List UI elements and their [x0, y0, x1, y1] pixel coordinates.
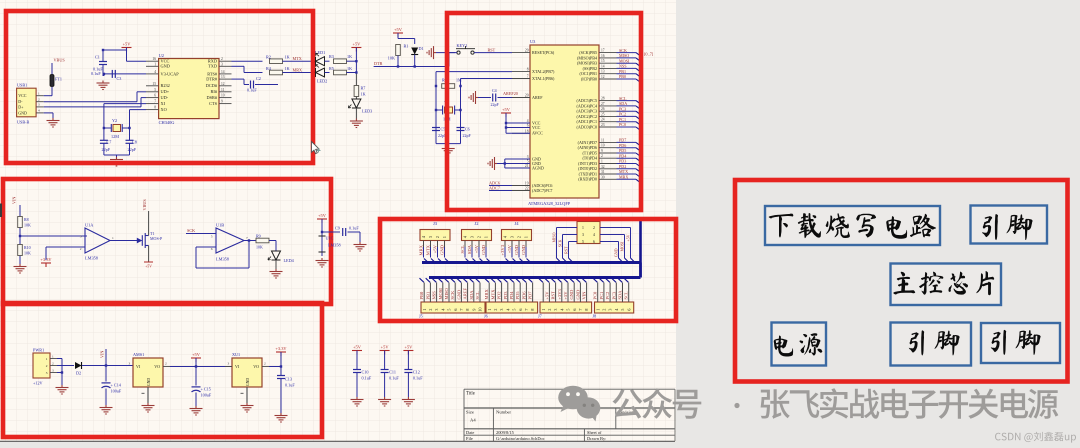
svg-text:20: 20: [525, 94, 529, 98]
mouse cursor: [312, 142, 320, 154]
svg-text:2: 2: [602, 308, 607, 310]
svg-text:3: 3: [228, 361, 230, 365]
svg-text:D1: D1: [419, 46, 424, 51]
svg-text:3: 3: [129, 361, 131, 365]
ground under USB1: [44, 112, 53, 114]
ground pin XU1: [246, 387, 248, 403]
svg-text:+5V: +5V: [626, 234, 631, 241]
svg-text:MTX: MTX: [490, 289, 495, 300]
svg-text:RESET(PC6): RESET(PC6): [532, 50, 555, 55]
svg-text:31: 31: [601, 170, 605, 174]
LED LED4: [268, 251, 281, 260]
svg-text:(TXD)PD1: (TXD)PD1: [579, 171, 597, 176]
svg-text:Size: Size: [466, 410, 474, 415]
svg-text:XO: XO: [161, 107, 167, 112]
bus lower: [429, 276, 641, 279]
wire J3 pin 2: [437, 241, 439, 248]
svg-text:4: 4: [154, 70, 156, 74]
svg-text:VIN: VIN: [12, 197, 17, 204]
svg-text:12: 12: [221, 82, 225, 86]
LED LED2: [316, 65, 325, 78]
svg-text:6: 6: [593, 240, 595, 244]
svg-text:1: 1: [422, 308, 427, 310]
svg-text:3: 3: [221, 62, 223, 66]
wire J5 pin 6: [451, 278, 455, 282]
svg-text:GND: GND: [456, 289, 461, 299]
svg-text:GND: GND: [521, 244, 526, 255]
svg-text:C5: C5: [441, 126, 446, 131]
svg-text:(MISO)PB4: (MISO)PB4: [577, 55, 597, 60]
svg-text:R10: R10: [24, 245, 31, 250]
ground GND pins: [505, 158, 530, 160]
svg-text:19: 19: [525, 182, 529, 186]
ground under U1C: [316, 258, 329, 267]
svg-text:10K: 10K: [24, 223, 31, 228]
pin 32 net PD2: [599, 168, 617, 170]
wire ISP +5V: [600, 227, 631, 229]
svg-text:MRX: MRX: [484, 288, 489, 299]
svg-text:(ADC5)PC5: (ADC5)PC5: [577, 98, 597, 103]
svg-text:100uF: 100uF: [111, 389, 122, 394]
svg-text:Title: Title: [466, 392, 475, 397]
svg-text:+5V: +5V: [192, 352, 201, 357]
svg-text:+ C14: + C14: [111, 383, 122, 388]
wire U1B out to R9: [244, 240, 256, 242]
svg-text:10: 10: [221, 94, 225, 98]
header J4: [502, 230, 532, 241]
svg-text:(AIN1)PD7: (AIN1)PD7: [578, 140, 597, 145]
svg-text:MRX: MRX: [419, 244, 424, 255]
svg-text:1: 1: [154, 62, 156, 66]
svg-text:GND: GND: [514, 244, 519, 255]
legend box: power: [772, 323, 827, 366]
wire J6 pin 1: [485, 278, 489, 282]
svg-text:5: 5: [211, 234, 213, 238]
svg-text:U1A: U1A: [85, 222, 94, 227]
svg-text:24: 24: [601, 118, 605, 122]
svg-text:J8: J8: [593, 314, 597, 319]
svg-text:(ADC7)PC7: (ADC7)PC7: [532, 188, 552, 193]
svg-text:(OC1)PB1: (OC1)PB1: [579, 71, 597, 76]
svg-text:GND: GND: [614, 248, 619, 257]
svg-text:U1C: U1C: [326, 236, 334, 241]
svg-text:AREF20: AREF20: [503, 91, 518, 96]
pin 1 net PD3: [599, 163, 617, 165]
svg-text:VBUS: VBUS: [142, 199, 147, 211]
svg-text:PB0: PB0: [419, 291, 424, 300]
net label VBUS (T1 drain): [148, 211, 150, 236]
svg-text:MOSI: MOSI: [620, 241, 625, 252]
svg-text:RST: RST: [488, 48, 496, 53]
wire D- to UD+: [44, 101, 137, 103]
pin 15 net MOSI: [599, 62, 617, 64]
svg-text:(ADC2)PC2: (ADC2)PC2: [577, 114, 597, 119]
ground at C9: [354, 242, 367, 251]
svg-text:+5V: +5V: [353, 345, 362, 350]
svg-text:LM358: LM358: [216, 257, 229, 262]
wire ISP MISO: [557, 227, 578, 229]
svg-text:1: 1: [38, 92, 40, 96]
svg-text:PB1: PB1: [619, 69, 626, 74]
svg-text:15: 15: [152, 82, 156, 86]
wire J8 pin 4: [612, 278, 616, 282]
svg-text:16: 16: [152, 57, 156, 61]
svg-text:LED3: LED3: [362, 109, 372, 114]
IC U2 CH340G: [159, 59, 219, 119]
power +5V (U1C): [317, 219, 327, 223]
svg-text:13: 13: [601, 70, 605, 74]
wire J7 pin 6: [570, 278, 574, 282]
resistor R6 1M: [442, 84, 455, 89]
svg-text:8: 8: [154, 106, 156, 110]
legend box: pins (bottom middle): [891, 323, 972, 366]
svg-text:AGND: AGND: [532, 165, 544, 170]
svg-text:LED2: LED2: [317, 78, 327, 83]
power +5V under T1: [148, 246, 150, 263]
wire ISP MOSI: [600, 234, 625, 236]
header J3: [420, 230, 450, 241]
svg-text:PC3: PC3: [611, 291, 616, 300]
svg-text:30: 30: [601, 175, 605, 179]
wire J7 pin 4: [557, 278, 561, 282]
wire J5 pin 5: [444, 278, 448, 282]
power +3.3V out: [276, 352, 286, 356]
svg-text:+5V: +5V: [563, 291, 568, 300]
highlight box 3 (power monitor): [3, 179, 331, 304]
wire J6 pin 2: [491, 278, 495, 282]
svg-text:VI: VI: [235, 364, 240, 369]
svg-text:100uF: 100uF: [201, 393, 212, 398]
svg-text:1: 1: [442, 236, 447, 238]
svg-text:G:\arduino\arduino.SchDoc: G:\arduino\arduino.SchDoc: [496, 436, 545, 441]
pin 23 net PC0: [599, 126, 617, 128]
legend box: main chip: [891, 264, 1002, 306]
svg-text:2: 2: [221, 57, 223, 61]
svg-text:1K: 1K: [361, 92, 366, 97]
wire J5 pin 1: [420, 278, 424, 282]
svg-text:CH340G: CH340G: [159, 120, 176, 125]
svg-text:3: 3: [80, 234, 82, 238]
pin 9 net PD5: [599, 152, 617, 154]
pin 30 net MRX: [599, 178, 617, 180]
svg-text:6: 6: [527, 124, 529, 128]
svg-text:23: 23: [601, 123, 605, 127]
svg-text:(ADC4)PC4: (ADC4)PC4: [577, 103, 597, 108]
svg-text:RI#: RI#: [211, 89, 218, 94]
pin 14 net NSS: [599, 67, 617, 69]
wire J6 pin 4: [503, 278, 507, 282]
bus corner: [639, 263, 642, 278]
ground under LED4: [270, 269, 283, 278]
wire J5 pin 7: [457, 278, 461, 282]
vertical bus from U3 to headers: [639, 219, 642, 278]
svg-text:T1: T1: [150, 231, 154, 236]
pin 26 net PC3: [599, 110, 617, 112]
wire ISP GND: [600, 241, 619, 243]
wire D+ to UD-: [44, 106, 141, 108]
svg-text:22pF: 22pF: [128, 147, 137, 152]
highlight box 2 (main chip): [447, 13, 641, 210]
wire J3 pin 4: [423, 241, 425, 248]
svg-text:C1: C1: [95, 55, 100, 60]
resistor R3: [334, 59, 347, 64]
svg-text:USB1: USB1: [17, 83, 27, 88]
wire J5 pin 10: [475, 278, 479, 282]
svg-text:DTR: DTR: [374, 61, 383, 66]
svg-text:1: 1: [595, 308, 600, 310]
svg-text:+5V: +5V: [404, 345, 413, 350]
svg-text:U1B: U1B: [216, 222, 224, 227]
ground under C12: [402, 397, 415, 406]
ground pin AMS1: [147, 387, 149, 403]
capacitor C11: [380, 351, 390, 355]
svg-text:J5: J5: [419, 314, 423, 319]
highlight box 5 (pin headers): [380, 219, 676, 321]
crystal Y2 circuit: [104, 103, 146, 105]
svg-text:C8: C8: [132, 140, 137, 145]
svg-text:1K: 1K: [285, 66, 290, 71]
legend box: pins (top): [971, 206, 1048, 244]
svg-text:+5V: +5V: [145, 265, 152, 269]
regulator XU1: [232, 358, 262, 387]
wire J7 pin 8: [582, 278, 586, 282]
svg-text:SCK: SCK: [619, 48, 627, 53]
svg-text:7: 7: [527, 75, 529, 79]
svg-text:11: 11: [221, 88, 225, 92]
svg-text:VI: VI: [136, 364, 141, 369]
svg-text:2: 2: [493, 308, 498, 310]
svg-text:5: 5: [582, 240, 584, 244]
svg-text:PD5: PD5: [515, 291, 520, 300]
svg-text:(T0)PD4: (T0)PD4: [582, 156, 597, 161]
LED LED3: [348, 99, 361, 108]
ground under C13: [275, 413, 288, 422]
svg-text:PD3: PD3: [503, 291, 508, 300]
svg-text:DTR#: DTR#: [206, 77, 218, 82]
capacitor C6: [457, 127, 465, 129]
svg-text:9: 9: [221, 100, 223, 104]
svg-text:22pF: 22pF: [102, 147, 111, 152]
svg-text:26: 26: [601, 107, 605, 111]
wire RXD-MTX: [232, 60, 263, 62]
svg-text:VBUS: VBUS: [54, 58, 66, 63]
svg-text:3: 3: [527, 155, 529, 159]
pin 11 net PD7: [599, 141, 617, 143]
ground at KEY1: [436, 52, 457, 54]
svg-text:(ADC1)PC1: (ADC1)PC1: [577, 119, 597, 124]
svg-text:22: 22: [525, 187, 529, 191]
ground under C1: [97, 81, 110, 90]
wire U1A out to T1: [110, 240, 133, 242]
svg-text:VIN: VIN: [100, 351, 105, 358]
svg-text:SDA: SDA: [469, 290, 474, 300]
svg-text:C13: C13: [285, 376, 292, 381]
svg-text:MTX: MTX: [426, 244, 431, 255]
svg-text:12: 12: [601, 75, 605, 79]
svg-text:UD-: UD-: [161, 95, 169, 100]
svg-text:(ADC0)PC0: (ADC0)PC0: [577, 124, 597, 129]
svg-text:AREF: AREF: [463, 288, 468, 300]
svg-text:13: 13: [221, 75, 225, 79]
svg-text:(ICP)PB0: (ICP)PB0: [581, 76, 597, 81]
svg-text:J2: J2: [474, 221, 479, 226]
wire J2 pin 3: [471, 241, 473, 248]
pin 25 net PC2: [599, 115, 617, 117]
svg-text:12M: 12M: [111, 134, 119, 139]
svg-text:10: 10: [601, 144, 605, 148]
wire J2 pin 4: [464, 241, 466, 248]
svg-text:2: 2: [517, 236, 522, 238]
svg-text:R5: R5: [329, 66, 334, 71]
wire J5 pin 8: [463, 278, 467, 282]
svg-text:27: 27: [601, 102, 605, 106]
svg-text:D+: D+: [18, 104, 24, 109]
wire AMS1 out: [170, 366, 232, 368]
svg-text:D2: D2: [76, 371, 81, 376]
svg-text:11: 11: [601, 138, 605, 142]
svg-text:25: 25: [601, 112, 605, 116]
header J7: [540, 302, 592, 313]
svg-text:PD4: PD4: [619, 153, 626, 158]
wire J8 pin 1: [593, 278, 597, 282]
svg-text:SCK: SCK: [558, 239, 563, 247]
header J2: [462, 230, 492, 241]
capacitor C8: [129, 128, 131, 140]
ISP header J1 2x3: [577, 222, 600, 244]
svg-text:17: 17: [601, 49, 605, 53]
USB connector USB1: [17, 88, 36, 117]
power +5V (reset pullup): [393, 33, 403, 37]
svg-text:PD6: PD6: [619, 143, 626, 148]
capacitor C13: [280, 367, 282, 376]
svg-text:VIN: VIN: [582, 291, 587, 300]
wire J2 pin 2: [478, 241, 480, 248]
capacitor C2 (DTR): [232, 78, 245, 80]
svg-text:RST: RST: [564, 246, 569, 254]
svg-text:MISO: MISO: [444, 287, 449, 299]
svg-text:SCK: SCK: [187, 228, 195, 233]
svg-text:SCK: SCK: [450, 290, 455, 300]
diode D1: [411, 48, 418, 55]
pin 13 net PB1: [599, 73, 617, 75]
svg-text:C7: C7: [107, 140, 112, 145]
title block: [464, 388, 675, 390]
svg-text:MOS-P: MOS-P: [150, 236, 163, 241]
svg-text:ATMEGA328_32LQFP: ATMEGA328_32LQFP: [528, 201, 571, 206]
svg-text:PC0: PC0: [619, 122, 626, 127]
svg-text:SCL: SCL: [624, 291, 629, 300]
wire RST to pin29: [474, 52, 512, 54]
capacitor C9: [322, 231, 340, 233]
feedback wire U1B: [196, 246, 216, 248]
svg-text:PD4: PD4: [509, 291, 514, 300]
ground under C15: [190, 406, 203, 415]
svg-text:VCC: VCC: [18, 93, 27, 98]
svg-text:SCL: SCL: [619, 96, 627, 101]
capacitor C10: [352, 351, 362, 355]
crystal Y1: [445, 107, 453, 113]
svg-text:2: 2: [52, 361, 54, 365]
pin 12 net PB0: [599, 78, 617, 80]
svg-text:0.1uF: 0.1uF: [285, 382, 295, 387]
svg-text:XI: XI: [161, 101, 166, 106]
wire J3 pin 3: [430, 241, 432, 248]
svg-text:PWR1: PWR1: [33, 347, 44, 352]
svg-text:VCC: VCC: [532, 125, 541, 130]
svg-text:MISO: MISO: [552, 232, 557, 242]
IC U3 ATMEGA328: [530, 45, 599, 198]
highlight box 1 (download circuit): [6, 11, 313, 163]
ground under divider: [14, 264, 27, 273]
resistor R5: [334, 70, 347, 75]
svg-text:MISO: MISO: [619, 53, 629, 58]
svg-text:PB1: PB1: [425, 292, 430, 300]
svg-text:0.1uF: 0.1uF: [349, 226, 359, 231]
svg-text:PD6: PD6: [521, 291, 526, 300]
wire J6 pin 7: [522, 278, 526, 282]
transistor T1 MOS-P: [137, 238, 142, 242]
svg-text:PD7: PD7: [528, 291, 533, 300]
svg-text:XU1: XU1: [232, 352, 240, 357]
svg-text:AREF: AREF: [532, 95, 543, 100]
svg-text:NSS: NSS: [432, 291, 437, 300]
svg-text:2009/8/15: 2009/8/15: [496, 430, 515, 435]
svg-text:GND: GND: [440, 244, 445, 255]
svg-text:PB0: PB0: [619, 74, 626, 79]
wire J7 pin 3: [551, 278, 555, 282]
wechat watermark icon: [558, 386, 600, 422]
power +5V above LED ladder: [351, 48, 361, 52]
svg-text:3: 3: [52, 368, 54, 372]
svg-text:+5V: +5V: [507, 244, 512, 253]
pin 2 net PD4: [599, 157, 617, 159]
divider R8/R10: [19, 205, 21, 264]
svg-text:4: 4: [38, 109, 40, 113]
svg-text:MTX: MTX: [619, 169, 628, 174]
svg-text:VO: VO: [154, 364, 160, 369]
svg-text:10K: 10K: [24, 251, 31, 256]
wire J6 pin 8: [528, 278, 532, 282]
ground under crystal: [104, 154, 130, 156]
svg-text:PD2: PD2: [497, 291, 502, 299]
wire J5 pin 4: [438, 278, 442, 282]
crystal Y1 circuit: [436, 71, 512, 73]
wire PWR1 to D2: [57, 365, 74, 367]
svg-text:1: 1: [582, 226, 584, 230]
svg-text:J6: J6: [484, 314, 488, 319]
svg-text:Date: Date: [466, 430, 474, 435]
svg-text:+5V: +5V: [381, 345, 390, 350]
svg-text:PD3: PD3: [619, 159, 626, 164]
svg-text:+5V: +5V: [474, 244, 479, 253]
svg-text:USB-B: USB-B: [17, 120, 30, 125]
wire J5 pin 2: [426, 278, 430, 282]
wire J8 pin 3: [605, 278, 609, 282]
resistor R7: [354, 86, 359, 97]
svg-text:+12V: +12V: [33, 381, 43, 386]
svg-text:Sheet of: Sheet of: [587, 430, 602, 435]
connector PWR1: [33, 353, 50, 378]
capacitor C14: [105, 366, 107, 382]
power +3.3V ref: [41, 263, 51, 267]
svg-text:0.1uF: 0.1uF: [389, 375, 399, 380]
svg-text:C11: C11: [389, 369, 396, 374]
header J6: [486, 302, 538, 313]
fuse FT1: [51, 63, 53, 75]
svg-text:LED4: LED4: [284, 258, 295, 263]
svg-text:PC0: PC0: [593, 291, 598, 300]
svg-text:R9: R9: [256, 234, 261, 239]
